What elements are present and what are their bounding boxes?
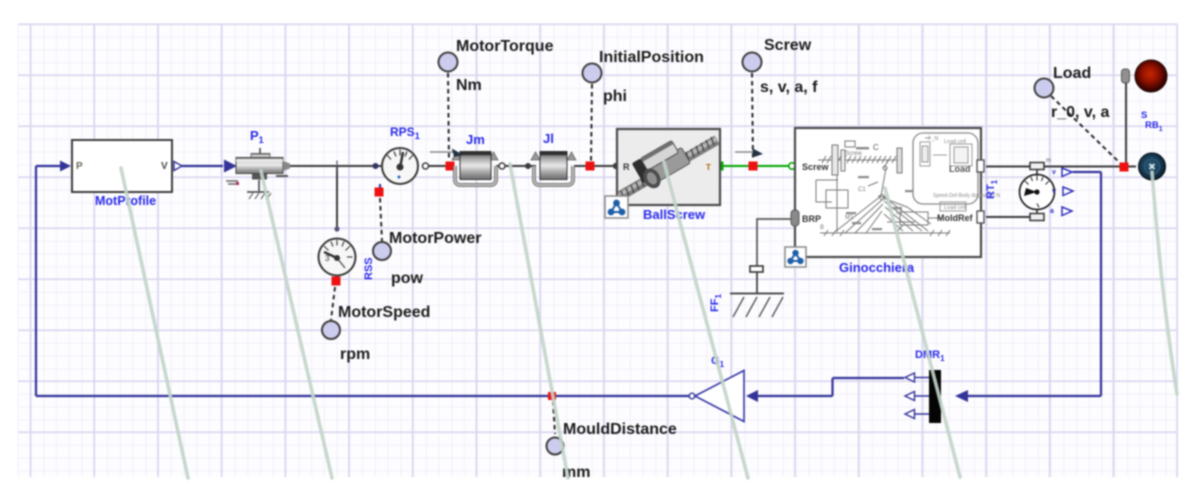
svg-text:InitialPosition: InitialPosition (599, 49, 704, 66)
svg-text:v: v (1052, 169, 1056, 176)
svg-text:V: V (161, 161, 168, 172)
svg-text:Jl: Jl (543, 131, 554, 146)
svg-text:BRP: BRP (802, 214, 821, 224)
svg-text:v: v (1052, 188, 1056, 195)
svg-text:Screw: Screw (764, 37, 812, 54)
svg-text:Nm: Nm (456, 77, 482, 94)
svg-text:MotorSpeed: MotorSpeed (338, 304, 430, 321)
svg-text:Load cell: Load cell (944, 205, 966, 211)
svg-text:Load: Load (1053, 65, 1091, 82)
svg-text:F_N: F_N (928, 136, 938, 142)
svg-text:Load cell: Load cell (944, 139, 966, 145)
svg-text:MotorTorque: MotorTorque (456, 38, 554, 55)
svg-text:R: R (623, 162, 630, 172)
svg-text:Jm: Jm (466, 132, 485, 147)
svg-text:phi: phi (603, 88, 627, 105)
svg-text:C1: C1 (858, 187, 866, 193)
svg-text:M1: M1 (845, 215, 854, 221)
svg-text:rpm: rpm (340, 346, 370, 363)
svg-text:m: m (1046, 158, 1051, 164)
svg-text:C: C (873, 143, 879, 152)
svg-text:MouldDistance: MouldDistance (563, 421, 677, 438)
svg-text:B: B (820, 225, 824, 231)
svg-text:L2: L2 (896, 210, 903, 216)
svg-text:T: T (706, 163, 711, 172)
svg-text:Screw: Screw (845, 151, 862, 157)
svg-text:a: a (1050, 208, 1054, 215)
svg-text:s, v, a, f: s, v, a, f (760, 79, 818, 96)
svg-text:r_0, v, a: r_0, v, a (1051, 104, 1110, 121)
svg-text:BallScrew: BallScrew (643, 207, 706, 222)
svg-text:MoldRef: MoldRef (937, 213, 973, 223)
svg-text:MotorPower: MotorPower (389, 230, 481, 247)
svg-text:RSS: RSS (363, 257, 375, 280)
svg-text:Screw: Screw (802, 162, 830, 172)
svg-text:Load: Load (949, 164, 971, 174)
svg-text:pow: pow (391, 270, 424, 287)
svg-text:P: P (76, 161, 83, 172)
